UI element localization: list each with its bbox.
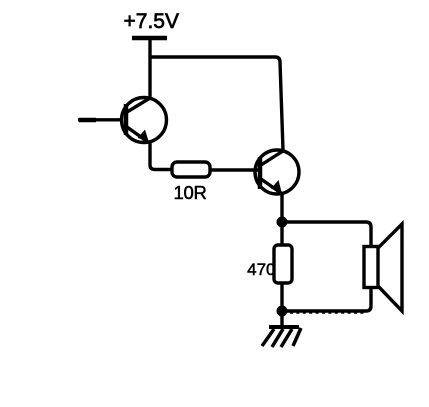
wire supply bar down to Q1 collector [148, 38, 151, 99]
svg-text:470: 470 [247, 260, 275, 279]
transistor Q1 [122, 98, 167, 143]
wire node A to R2 [280, 222, 283, 245]
wire node A to speaker top [282, 222, 371, 247]
ground [262, 311, 301, 347]
wire Q2 emitter to node A [280, 193, 283, 222]
node B junction dot [277, 306, 288, 317]
svg-text:+7.5V: +7.5V [124, 10, 179, 33]
speaker LS1 [364, 224, 402, 311]
resistor R2 [274, 245, 292, 283]
wire node B to speaker bottom [282, 287, 371, 311]
wire Q1 emitter to R1 [150, 141, 172, 170]
wire R2 to node B [280, 283, 283, 311]
transistor Q2 [255, 150, 299, 194]
wire R1 to Q2 base [210, 168, 259, 171]
power rail bar [132, 36, 167, 41]
wire top rail to Q2 collector [150, 57, 283, 150]
wire Q1 base lead [78, 118, 123, 121]
svg-text:10R: 10R [174, 182, 207, 203]
resistor R1 [172, 162, 210, 177]
node A junction dot [277, 217, 288, 228]
